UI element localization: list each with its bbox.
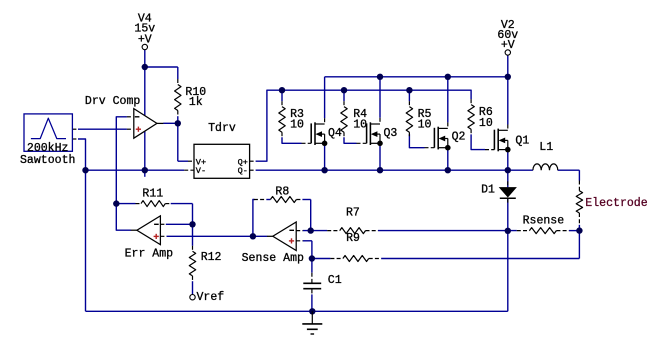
svg-text:R7: R7 bbox=[346, 206, 360, 219]
svg-text:V-: V- bbox=[196, 166, 206, 176]
svg-text:L1: L1 bbox=[539, 141, 553, 154]
svg-text:Sawtooth: Sawtooth bbox=[20, 154, 75, 167]
svg-text:1k: 1k bbox=[189, 96, 203, 109]
svg-text:10: 10 bbox=[290, 118, 304, 131]
svg-text:R8: R8 bbox=[275, 185, 289, 198]
svg-text:10: 10 bbox=[479, 117, 493, 130]
svg-text:Electrode: Electrode bbox=[585, 197, 647, 210]
svg-text:C1: C1 bbox=[328, 274, 342, 287]
svg-text:10: 10 bbox=[353, 118, 367, 131]
svg-text:Q3: Q3 bbox=[384, 127, 398, 140]
svg-text:+V: +V bbox=[138, 34, 152, 47]
svg-text:Tdrv: Tdrv bbox=[208, 122, 236, 135]
svg-text:Q1: Q1 bbox=[515, 134, 529, 147]
svg-text:Q4: Q4 bbox=[328, 127, 342, 140]
svg-text:Q2: Q2 bbox=[452, 131, 466, 144]
svg-text:R9: R9 bbox=[346, 232, 360, 245]
svg-text:10: 10 bbox=[418, 118, 432, 131]
svg-text:Err Amp: Err Amp bbox=[125, 247, 174, 260]
svg-text:Q-: Q- bbox=[238, 166, 248, 176]
svg-text:Sense Amp: Sense Amp bbox=[242, 252, 304, 265]
svg-text:R12: R12 bbox=[201, 251, 222, 264]
svg-text:D1: D1 bbox=[481, 183, 495, 196]
svg-text:Rsense: Rsense bbox=[523, 215, 565, 228]
svg-text:R11: R11 bbox=[142, 187, 163, 200]
svg-text:+V: +V bbox=[501, 39, 515, 52]
svg-text:200kHz: 200kHz bbox=[27, 142, 69, 155]
svg-text:Drv Comp: Drv Comp bbox=[85, 95, 141, 108]
svg-text:Vref: Vref bbox=[197, 291, 225, 304]
